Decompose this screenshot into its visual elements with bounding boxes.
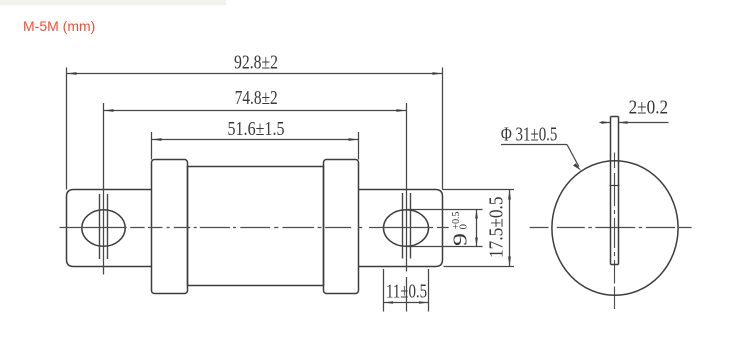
arrow 11 left: [384, 301, 394, 304]
11 dim extension lines: [384, 269, 429, 312]
left view horizontal centerline (dash-dot): [60, 227, 449, 229]
arrow 51.6 left: [152, 138, 162, 141]
arrow 9 top: [475, 210, 478, 219]
92.8 right extension line: [442, 68, 444, 190]
2 dimension line right part / text underline: [619, 122, 669, 124]
blade outline: [611, 117, 619, 265]
end view horizontal centerline (dash-dot): [530, 227, 692, 229]
right hole vertical centerline / 74.8 + 11 extension: [406, 103, 408, 312]
svg-text:11±0.5: 11±0.5: [386, 280, 427, 302]
9 dimension line: [476, 210, 478, 247]
right mounting tab: [359, 190, 443, 267]
arrow 2 right (points left): [619, 121, 628, 124]
arrow 17.5 bottom: [508, 257, 511, 267]
svg-text:9: 9: [450, 233, 472, 246]
svg-text:92.8±2: 92.8±2: [234, 52, 278, 74]
left end cap: [152, 160, 188, 294]
svg-text:2±0.2: 2±0.2: [629, 97, 669, 119]
92.8 dimension line: [67, 73, 443, 75]
left slot hole: [82, 210, 125, 247]
svg-text:17.5±0.5: 17.5±0.5: [486, 197, 508, 259]
92.8 left extension line: [66, 68, 68, 190]
51.6 right extension line: [358, 132, 360, 160]
svg-text:0: 0: [458, 224, 469, 230]
svg-text:51.6±1.5: 51.6±1.5: [228, 118, 285, 140]
end view vertical centerline (dash-dot): [614, 153, 616, 310]
9 dim extension lines: [407, 210, 483, 247]
svg-text:Φ 31±0.5: Φ 31±0.5: [501, 124, 558, 146]
left mounting tab: [67, 190, 152, 267]
74.8 dimension line: [104, 110, 407, 112]
phi31 leader line: [567, 145, 579, 167]
arrow 51.6 right: [349, 138, 359, 141]
arrow phi31 leader: [573, 163, 581, 170]
arrow 2 left (points right): [602, 121, 611, 124]
arrow 74.8 left: [104, 109, 114, 112]
51.6 left extension line: [151, 132, 153, 160]
faint scan streak top-left: [0, 0, 226, 5]
arrow 74.8 right: [397, 109, 407, 112]
left hole vertical centerline / 74.8 extension: [103, 103, 105, 275]
fuse body: [188, 167, 324, 286]
17.5 dimension line: [509, 190, 511, 267]
red part label M-5M (mm): [23, 18, 95, 34]
right slot hole: [384, 210, 429, 247]
arrow 92.8 left: [67, 72, 77, 75]
17.5 top extension line: [443, 189, 515, 191]
right hole slot edge lines: [403, 193, 411, 259]
left hole slot edge lines: [100, 194, 108, 259]
17.5 bottom extension line: [444, 266, 515, 268]
2 dimension line left part: [600, 122, 611, 124]
phi31 label underline: [501, 144, 567, 146]
arrow 17.5 top: [508, 190, 511, 200]
svg-text:74.8±2: 74.8±2: [235, 87, 278, 109]
arrow 9 bottom: [475, 238, 478, 247]
arrow 92.8 right: [433, 72, 443, 75]
11 dimension line: [384, 302, 429, 304]
blade joint tick: [610, 185, 620, 187]
end view circle: [552, 161, 678, 296]
arrow 11 right: [419, 301, 429, 304]
right end cap: [324, 160, 359, 294]
51.6 dimension line: [152, 139, 359, 141]
